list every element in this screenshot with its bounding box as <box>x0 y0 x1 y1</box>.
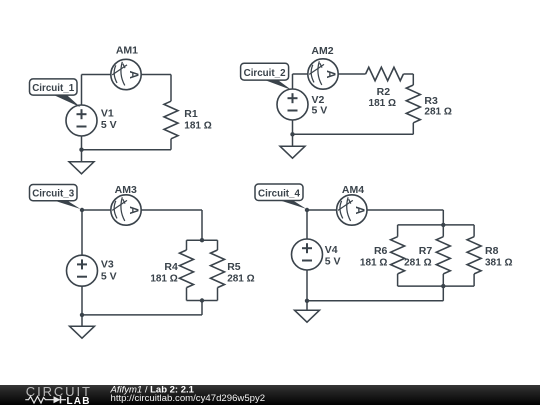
svg-text:AM1: AM1 <box>116 45 138 57</box>
svg-text:LAB: LAB <box>67 396 91 405</box>
svg-text:V4: V4 <box>325 244 338 256</box>
svg-text:5 V: 5 V <box>312 105 328 117</box>
svg-text:V3: V3 <box>101 258 114 270</box>
svg-text:Circuit_4: Circuit_4 <box>258 189 300 200</box>
svg-text:R7: R7 <box>419 245 433 257</box>
svg-text:R5: R5 <box>227 261 241 273</box>
svg-text:381 Ω: 381 Ω <box>485 258 512 269</box>
svg-text:Circuit_3: Circuit_3 <box>32 189 74 200</box>
svg-text:5 V: 5 V <box>101 119 117 131</box>
svg-text:AM2: AM2 <box>311 45 333 57</box>
svg-text:R2: R2 <box>377 86 391 98</box>
svg-text:http://circuitlab.com/cy47d296: http://circuitlab.com/cy47d296w5py2 <box>111 393 266 404</box>
svg-text:AM4: AM4 <box>342 184 364 196</box>
svg-text:181 Ω: 181 Ω <box>369 98 396 109</box>
svg-text:281 Ω: 281 Ω <box>227 274 254 285</box>
svg-text:R6: R6 <box>374 245 388 257</box>
svg-text:A: A <box>127 206 139 214</box>
svg-text:281 Ω: 281 Ω <box>424 107 451 118</box>
svg-text:181 Ω: 181 Ω <box>360 258 387 269</box>
svg-text:R4: R4 <box>164 261 178 273</box>
svg-text:A: A <box>324 70 336 78</box>
svg-text:5 V: 5 V <box>325 256 341 268</box>
svg-text:5 V: 5 V <box>101 270 117 282</box>
svg-text:A: A <box>353 206 365 214</box>
svg-text:A: A <box>127 71 139 79</box>
svg-text:R1: R1 <box>184 108 198 120</box>
svg-text:AM3: AM3 <box>115 184 137 196</box>
svg-text:R3: R3 <box>424 95 438 107</box>
svg-text:181 Ω: 181 Ω <box>150 274 177 285</box>
svg-text:181 Ω: 181 Ω <box>184 121 211 132</box>
svg-text:Circuit_2: Circuit_2 <box>244 68 286 79</box>
svg-text:281 Ω: 281 Ω <box>404 258 431 269</box>
svg-text:R8: R8 <box>485 245 499 257</box>
svg-text:V1: V1 <box>101 108 114 120</box>
svg-text:Circuit_1: Circuit_1 <box>32 83 74 94</box>
